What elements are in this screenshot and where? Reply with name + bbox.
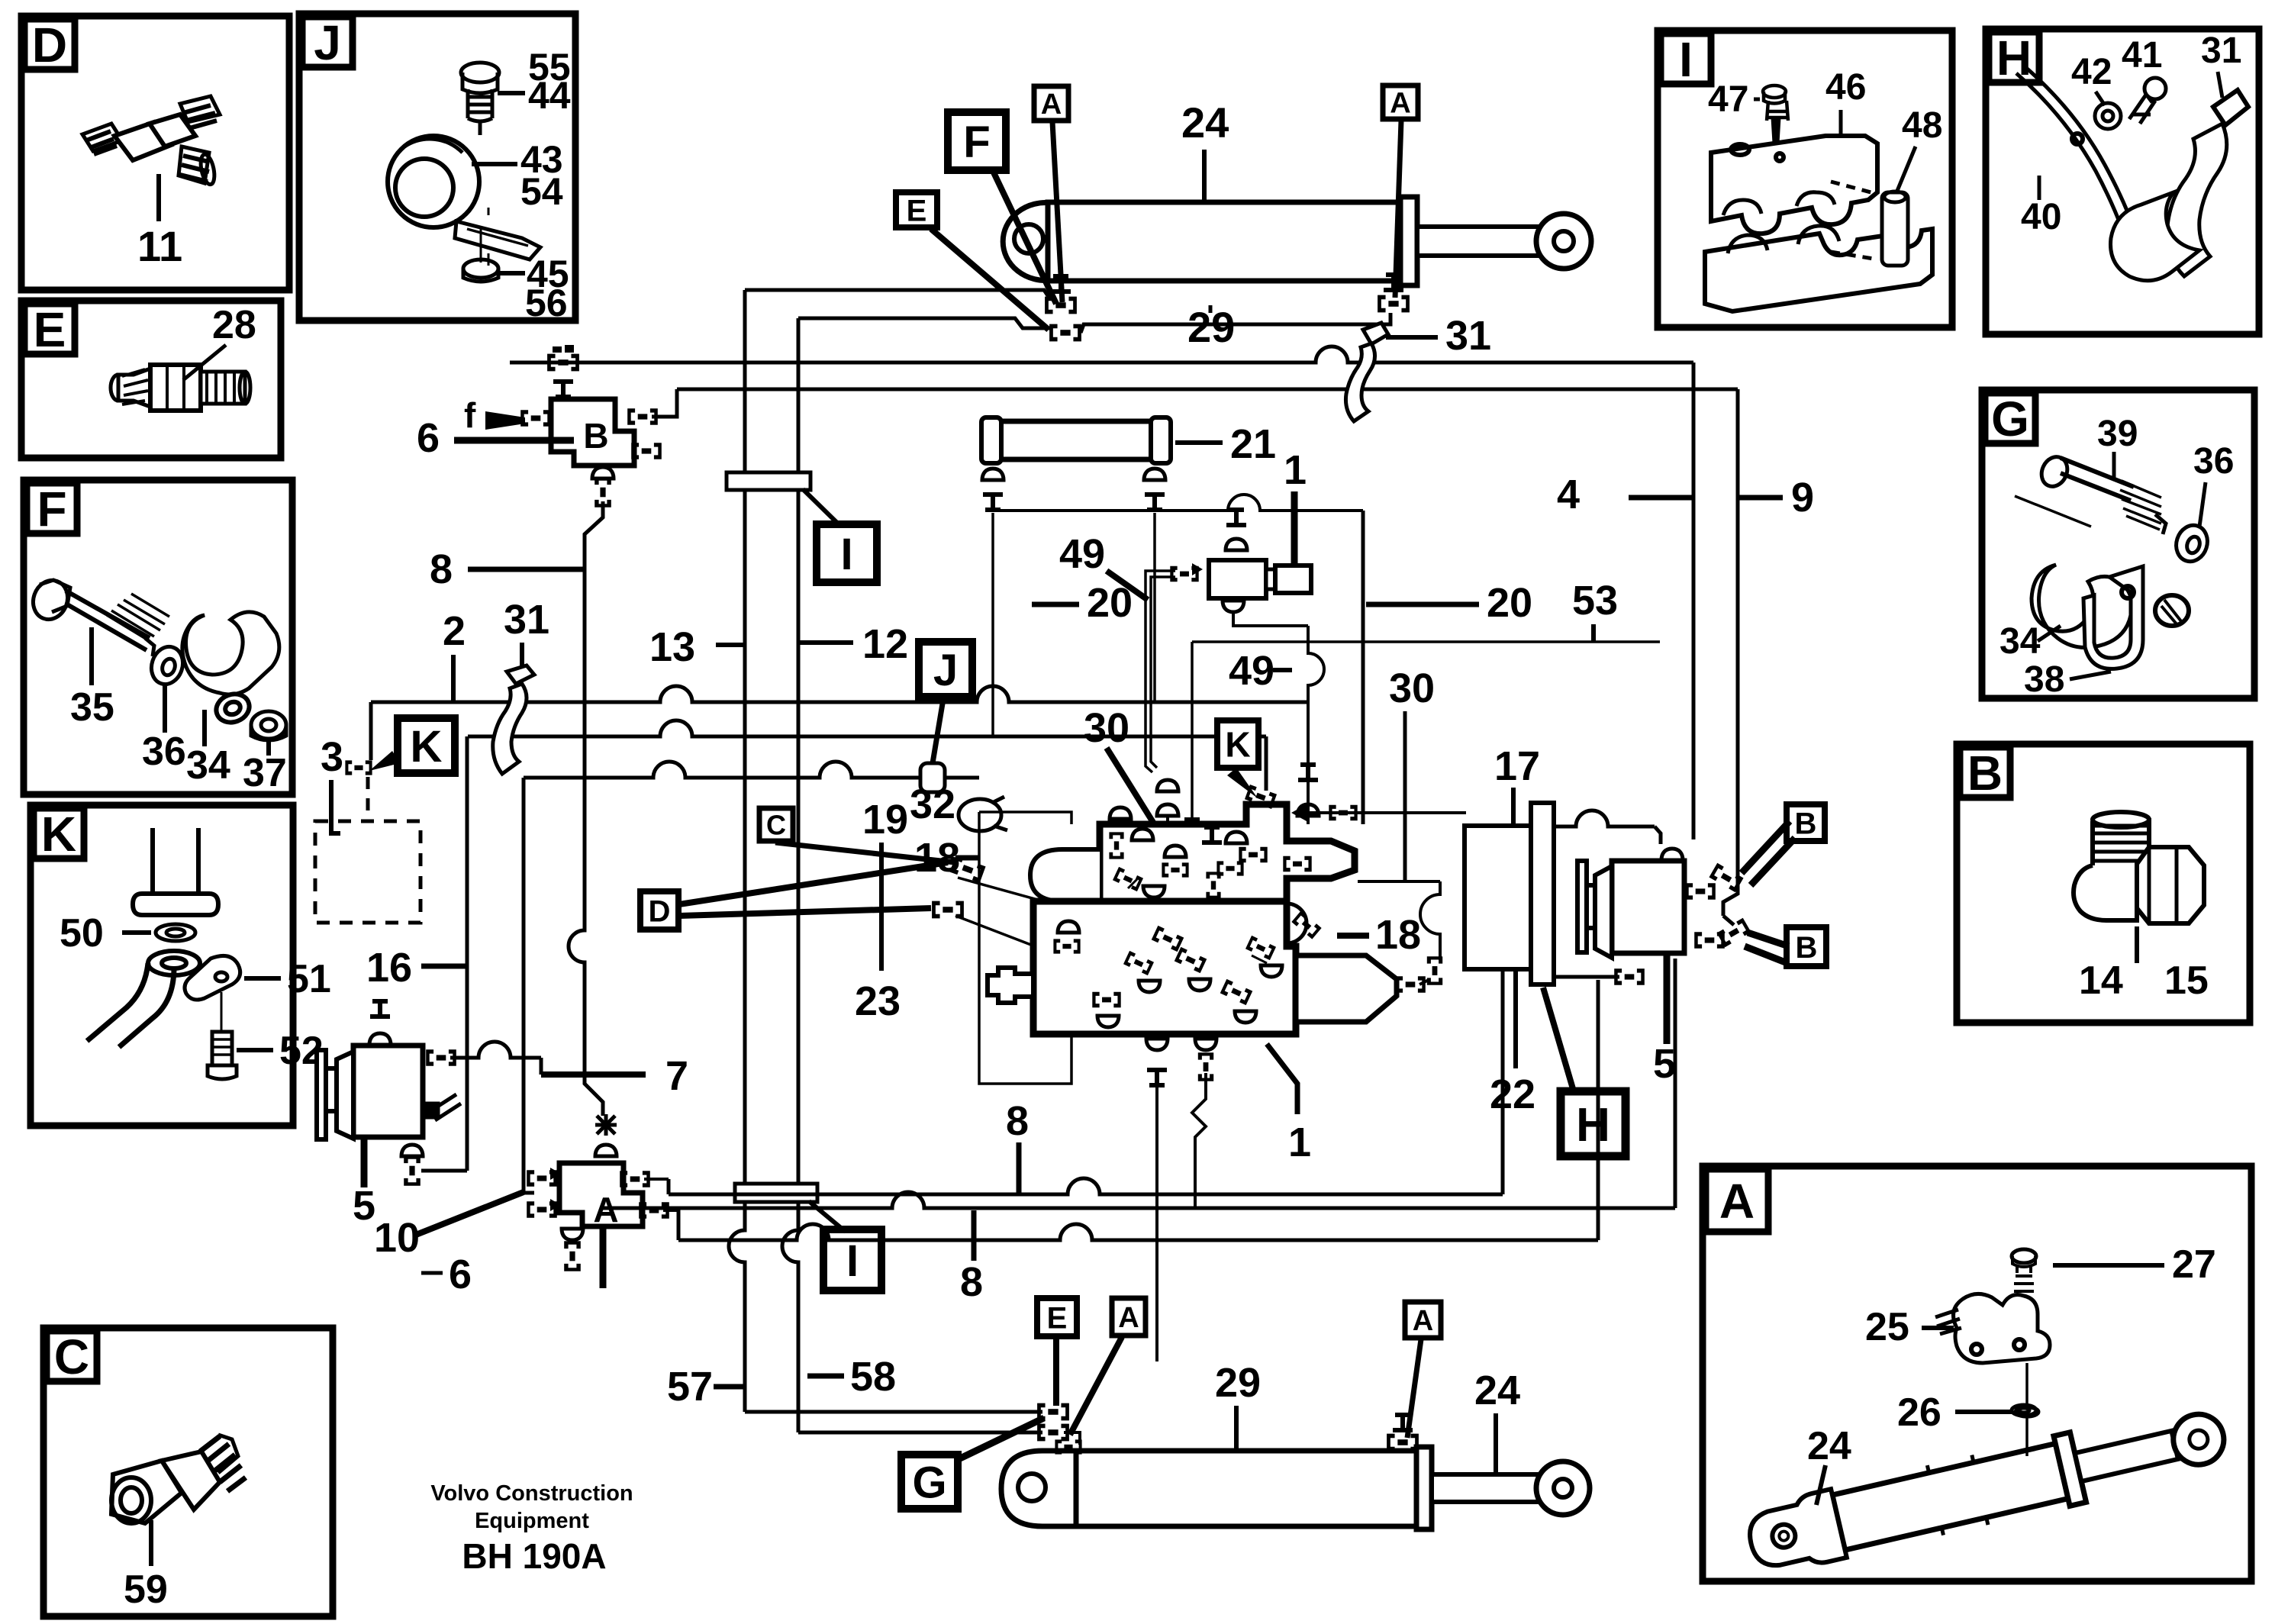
wire A bottom down <box>600 1226 607 1288</box>
label 35 leader <box>89 627 94 685</box>
hydraulic cylinder top barrel <box>1048 202 1400 281</box>
B tag lower leader <box>1748 933 1789 946</box>
extra valve interior fittings <box>1113 867 1143 891</box>
label 28 leader <box>183 345 226 380</box>
wire y965 drop to valve K fitting at x1659 <box>1265 736 1268 791</box>
svg-text:32: 32 <box>910 781 955 827</box>
wire vertical x1562 from 53 line down to valve <box>1191 642 1194 838</box>
wire B bottom vertical x766 <box>569 501 603 1116</box>
tag F top <box>948 112 1006 170</box>
label 42 leader <box>2096 92 2105 105</box>
svg-text:49: 49 <box>1229 648 1274 694</box>
tag F leader <box>994 172 1056 304</box>
callout box E frame <box>21 301 281 458</box>
svg-text:B: B <box>1795 807 1817 840</box>
top cylinder rod <box>1417 227 1539 256</box>
callout box G frame <box>1982 390 2254 698</box>
svg-text:14: 14 <box>2079 959 2123 1003</box>
fitting f inlet <box>520 410 551 427</box>
callout box H frame <box>1986 29 2259 334</box>
label 29 leader top <box>1209 305 1213 313</box>
tag A bottom-right leader <box>1407 1339 1421 1438</box>
svg-text:5: 5 <box>1653 1041 1676 1087</box>
pilot drop fittings into valve <box>1298 762 1318 782</box>
part 38 u-bolt in box G <box>2083 566 2189 669</box>
svg-text:C: C <box>766 809 786 840</box>
valve bottom fittings <box>1146 1039 1168 1050</box>
bottom cylinder E fitting <box>1037 1403 1069 1421</box>
svg-text:B: B <box>1796 931 1818 965</box>
I tag bottom <box>823 1229 881 1290</box>
callout box C letter tab <box>47 1331 97 1381</box>
clamp 31 hook drawing <box>493 665 534 774</box>
svg-text:Volvo Construction: Volvo Construction <box>430 1481 633 1506</box>
C tag <box>759 808 793 841</box>
K valve fitting <box>1245 785 1277 809</box>
clamp 31 on lines <box>1345 323 1388 421</box>
label 57 leader <box>714 1384 745 1390</box>
part 44 bolt in box J <box>461 63 499 135</box>
wire y1625 up at right <box>1597 980 1600 1240</box>
lower block right bullet spool <box>1296 955 1397 1022</box>
K tag left pointer <box>369 751 400 771</box>
valve top-right port arrow and wire to filter <box>1291 804 1307 821</box>
fitting under top cylinder 2 <box>1049 324 1081 342</box>
B tag right lower <box>1787 927 1826 966</box>
wire y1565 <box>669 1178 1503 1194</box>
hose from A-right fitting down-left <box>1081 313 1390 333</box>
svg-text:31: 31 <box>1445 313 1491 359</box>
callout box F letter tab <box>27 483 77 533</box>
wire from bullet tip to corner fitting <box>1419 980 1429 984</box>
solenoid left fitting <box>1170 566 1198 582</box>
bottom cylinder right A fitting <box>1387 1434 1419 1452</box>
hose from fitting2 to vertical x1046 <box>798 318 1050 328</box>
svg-text:18: 18 <box>1375 912 1421 958</box>
svg-text:59: 59 <box>124 1568 168 1612</box>
svg-text:E: E <box>907 194 927 227</box>
bottom cylinder rod collar <box>1416 1447 1432 1529</box>
svg-text:D: D <box>649 894 671 928</box>
callout box D letter tab <box>24 19 75 69</box>
bottom cylinder A fitting <box>1037 1424 1069 1442</box>
fittings above solenoid <box>1226 507 1246 527</box>
tag E bottom leader <box>1053 1338 1059 1406</box>
label 47 leader <box>1754 98 1760 101</box>
svg-text:H: H <box>1576 1099 1610 1152</box>
K tag left <box>398 718 455 773</box>
svg-text:11: 11 <box>137 222 182 270</box>
part 24 cylinder in box A <box>1743 1399 2231 1577</box>
label 17 leader <box>1511 788 1516 826</box>
label 24 leader in box A <box>1816 1465 1825 1505</box>
wire x2277 into lower fitting <box>1723 916 1734 925</box>
svg-text:39: 39 <box>2097 414 2138 454</box>
part 36 washer in box F <box>147 643 187 688</box>
A manifold block <box>559 1163 643 1226</box>
label 5 right leader thick <box>1664 955 1671 1044</box>
H tag leader <box>1543 988 1574 1091</box>
30 right vertical <box>1403 711 1407 881</box>
hose stem in box K <box>133 828 218 915</box>
svg-text:4: 4 <box>1557 472 1580 517</box>
label 39 leader <box>2112 452 2116 481</box>
hydraulic cylinder top clevis end <box>1003 203 1052 281</box>
svg-text:44: 44 <box>528 74 571 117</box>
svg-text:26: 26 <box>1897 1390 1941 1435</box>
fitting at K left <box>345 760 372 775</box>
wire corner from 2 down-left <box>369 702 373 760</box>
svg-text:31: 31 <box>504 597 549 643</box>
svg-text:A: A <box>1118 1302 1139 1334</box>
I tag top leader <box>803 489 841 527</box>
callout box A letter tab <box>1706 1169 1768 1232</box>
part 28 nipple in box E <box>111 365 250 411</box>
wire solenoid left to x1504 vertical (double) <box>1146 571 1175 772</box>
part 26 washer above cylinder in box A <box>2016 1363 2038 1456</box>
svg-text:27: 27 <box>2172 1242 2216 1287</box>
label 43 leader <box>472 162 517 166</box>
label 51 leader <box>244 976 281 981</box>
svg-text:G: G <box>912 1458 946 1507</box>
label 8 bottom-center leader <box>1017 1142 1022 1194</box>
svg-text:I: I <box>1679 32 1693 87</box>
corner fitting right of bullet <box>1427 956 1442 984</box>
tag E leader <box>931 229 1049 330</box>
label 14 leader <box>2135 926 2139 963</box>
label 4 leader <box>1629 495 1693 501</box>
fitting B right out <box>627 408 658 425</box>
wire y669 from resonator drop to vertical x1786 <box>993 495 1363 511</box>
part 39 bolt in box G <box>2015 453 2166 534</box>
control valve lower block outline <box>1033 901 1296 1034</box>
label 46 leader <box>1839 110 1843 134</box>
label 3 leader <box>331 780 340 833</box>
wire B right out to y510 <box>652 389 677 417</box>
svg-text:B: B <box>583 416 608 456</box>
svg-text:A: A <box>1390 88 1410 120</box>
filter plate 22 <box>1531 803 1554 984</box>
center vertical x976 <box>729 290 745 1412</box>
label 11 leader <box>156 174 161 221</box>
part 52 bolt in box K <box>208 992 237 1079</box>
bottom cylinder top fitting into barrel <box>1055 1439 1081 1454</box>
wire from valve bottom fitting 1 down <box>1155 1076 1158 1361</box>
part 34 clamp in box F <box>182 612 279 727</box>
top cylinder rod eye <box>1536 214 1591 269</box>
svg-text:16: 16 <box>366 945 412 991</box>
svg-text:34: 34 <box>1999 621 2041 662</box>
dashed wire below K fitting <box>366 777 370 821</box>
tag E top <box>896 192 937 227</box>
callout box B letter tab <box>1960 747 2010 797</box>
clevis hole top cylinder <box>1014 224 1043 253</box>
solenoid bottom fitting + wire down x1714 <box>1223 601 1244 612</box>
part 46 upper clamp block in box I <box>1711 136 1877 234</box>
label 31 leader <box>1386 335 1438 340</box>
J tag leader <box>933 699 943 763</box>
svg-text:1: 1 <box>1284 447 1307 493</box>
svg-text:58: 58 <box>850 1354 896 1400</box>
label 22 leader <box>1513 971 1518 1068</box>
svg-text:37: 37 <box>243 751 287 795</box>
callout box K letter tab <box>34 808 84 859</box>
center vertical x976 bottom to E fitting <box>745 1410 1042 1414</box>
label 50 leader <box>122 930 151 935</box>
svg-text:10: 10 <box>374 1215 420 1261</box>
label 30 center leader thick <box>1107 748 1175 858</box>
tag G bottom <box>901 1455 958 1509</box>
resonator left cap <box>981 417 1001 463</box>
label 34 leader <box>2038 626 2061 641</box>
vertical x612 (16 wire) <box>466 736 469 1171</box>
part 35 bolt in box F <box>27 575 169 656</box>
svg-text:49: 49 <box>1059 531 1105 577</box>
svg-text:35: 35 <box>70 685 114 730</box>
K tag valve <box>1217 720 1258 768</box>
label 12 leader <box>800 640 853 645</box>
svg-text:B: B <box>1967 746 2003 801</box>
svg-text:25: 25 <box>1865 1305 1909 1349</box>
wire y1019 long horizontal <box>524 762 979 778</box>
part 50 o-ring in box K <box>156 924 195 941</box>
svg-text:J: J <box>933 646 958 695</box>
C fitting cluster <box>949 855 985 883</box>
svg-text:24: 24 <box>1474 1368 1520 1413</box>
part 26 washer in box A <box>2012 1405 2036 1416</box>
label 13 leader <box>716 643 745 647</box>
wire y475 long horizontal <box>510 346 1693 362</box>
part 51 clamp half in box K <box>185 955 240 1000</box>
tag A bottom-left leader <box>1070 1337 1122 1435</box>
wire pump bottom to x612 <box>421 1169 467 1173</box>
part 46 lower clamp block in box I <box>1705 226 1932 311</box>
callout box D frame <box>21 16 289 290</box>
18 loop rectangle <box>979 812 1071 1084</box>
label 8 bottom leader <box>972 1210 977 1261</box>
bullet tip fitting <box>1395 976 1426 993</box>
center vertical x1046 bottom to A fitting <box>798 1431 1042 1435</box>
label 52 leader <box>237 1048 273 1052</box>
left 20 vertical bottom fittings <box>1157 780 1178 791</box>
svg-text:K: K <box>1225 725 1250 765</box>
label 25 leader <box>1922 1326 1954 1330</box>
label 38 leader <box>2070 672 2111 679</box>
svg-text:BH 190A: BH 190A <box>462 1536 606 1576</box>
label 36 leader <box>163 685 167 733</box>
svg-text:30: 30 <box>1389 665 1435 711</box>
fitting B lower-right out <box>631 443 662 459</box>
svg-text:36: 36 <box>142 730 186 774</box>
label 7 thick line <box>541 1071 646 1078</box>
svg-text:41: 41 <box>2122 35 2162 76</box>
K tag valve pointer <box>1227 768 1258 798</box>
tag A top-left leader <box>1052 122 1062 302</box>
I tag bottom leader <box>809 1201 846 1232</box>
svg-text:E: E <box>34 302 66 357</box>
label 26 leader <box>1955 1410 2012 1414</box>
part 40 leaf in box H <box>2016 67 2143 261</box>
part 27 valve in box A <box>2012 1249 2036 1291</box>
label 10 leader thick <box>416 1192 524 1235</box>
wire into valve top from elbow <box>1166 815 1169 824</box>
label 34 leader <box>202 710 207 746</box>
B tag right upper <box>1787 804 1825 841</box>
label 58 leader <box>807 1374 844 1379</box>
upper block nose (left rounded) <box>1030 849 1100 901</box>
wire pump right to 7 <box>450 1042 541 1058</box>
svg-text:48: 48 <box>1902 105 1942 146</box>
right motor right fittings lower <box>1694 932 1725 949</box>
svg-text:5: 5 <box>353 1183 375 1229</box>
callout box H letter tab <box>1989 32 2039 82</box>
wire from resonator left down to y965 <box>991 513 994 736</box>
callout box A frame <box>1703 1166 2251 1581</box>
part 42 washer in box H <box>2095 103 2121 129</box>
wire y841 (53) <box>1192 640 1660 643</box>
label 20 right leader <box>1366 602 1479 607</box>
svg-text:21: 21 <box>1230 421 1276 467</box>
right motor body <box>1612 861 1684 953</box>
A manifold bottom fittings <box>562 1229 583 1240</box>
svg-text:C: C <box>54 1329 89 1384</box>
lower block left pump stub <box>988 968 1033 1003</box>
tag A top-right <box>1383 85 1418 119</box>
label 36 leader <box>2199 482 2206 527</box>
svg-text:38: 38 <box>2024 659 2064 700</box>
svg-text:G: G <box>1991 391 2029 446</box>
label 31 leader <box>2218 72 2222 98</box>
svg-text:A: A <box>1719 1174 1755 1229</box>
svg-text:24: 24 <box>1181 98 1229 147</box>
svg-text:7: 7 <box>665 1053 688 1099</box>
wire y475 right vertical x2219 <box>1692 362 1696 839</box>
wire spool level y1155 to x1887 vertical <box>1358 880 1440 883</box>
D fitting cluster <box>932 901 964 919</box>
svg-text:34: 34 <box>186 743 230 788</box>
resonator right drop fittings <box>1144 469 1165 480</box>
svg-text:f: f <box>464 395 476 435</box>
svg-text:18: 18 <box>914 835 960 881</box>
callout box G letter tab <box>1985 393 2035 443</box>
svg-text:19: 19 <box>862 797 908 843</box>
svg-text:E: E <box>1047 1301 1068 1335</box>
I tag top <box>817 524 877 582</box>
svg-text:1: 1 <box>1288 1120 1311 1165</box>
wire y510 right vertical x2277 <box>1723 389 1738 916</box>
svg-text:A: A <box>1413 1305 1433 1337</box>
svg-text:42: 42 <box>2071 52 2112 92</box>
wire y1877 extension to right fitting <box>1064 1432 1080 1445</box>
A manifold left fittings <box>527 1170 557 1187</box>
svg-text:28: 28 <box>212 303 256 347</box>
star valve above A manifold <box>595 1114 617 1136</box>
svg-text:40: 40 <box>2021 197 2061 237</box>
32 wire loop ellipse <box>959 799 1001 831</box>
label 59 leader <box>149 1520 153 1566</box>
svg-text:F: F <box>963 118 990 167</box>
wire y965 long horizontal <box>468 720 1266 736</box>
label 2 leader <box>451 655 456 702</box>
wire y1565 up at right into tank <box>1501 971 1505 1194</box>
svg-text:17: 17 <box>1494 743 1540 789</box>
label 49 upper-left leader thick <box>1107 571 1148 600</box>
label 49 leader <box>1273 668 1292 672</box>
svg-text:D: D <box>32 18 67 72</box>
part 11 T-fitting in box D <box>82 96 220 185</box>
svg-text:47: 47 <box>1708 79 1748 120</box>
wire tank top to motor <box>1554 810 1655 826</box>
tank box 17 <box>1465 826 1531 969</box>
long diagonal wire 23 <box>955 916 1213 1015</box>
label 31 mid leader <box>520 643 524 665</box>
svg-text:29: 29 <box>1215 1360 1261 1406</box>
svg-text:57: 57 <box>667 1364 713 1410</box>
svg-text:22: 22 <box>1490 1071 1535 1117</box>
svg-text:8: 8 <box>430 546 453 592</box>
svg-text:12: 12 <box>862 621 908 667</box>
motor left lower fitting + wire <box>1614 968 1645 985</box>
svg-text:13: 13 <box>649 624 695 670</box>
label 18 left leader <box>955 855 979 861</box>
tag A bottom-left <box>1112 1298 1146 1336</box>
svg-text:3: 3 <box>321 734 343 780</box>
label 24 leader top <box>1202 150 1207 201</box>
callout box I letter tab <box>1661 34 1711 84</box>
label 37 leader <box>266 742 271 756</box>
svg-text:20: 20 <box>1487 580 1532 626</box>
label 45 leader <box>498 271 525 275</box>
label 18 right leader <box>1337 933 1369 939</box>
left pump top fittings <box>370 999 390 1019</box>
I sleeve clamp bottom <box>735 1184 817 1202</box>
part 43/54 clamp ring in box J <box>388 136 540 266</box>
svg-text:I: I <box>846 1236 859 1286</box>
B tag upper leader <box>1742 821 1790 873</box>
callout box F frame <box>24 480 292 794</box>
wire y1583 up at right <box>1674 959 1677 1208</box>
pump bottom fittings <box>401 1145 423 1156</box>
label 1 top leader <box>1291 491 1298 565</box>
svg-text:24: 24 <box>1807 1424 1851 1468</box>
svg-text:F: F <box>37 482 66 536</box>
D tag leader 1 <box>679 862 948 904</box>
label 8 left leader <box>468 567 585 572</box>
label 53 tick <box>1591 624 1596 642</box>
I sleeve clamp top <box>727 472 810 490</box>
callout box C frame <box>44 1328 333 1616</box>
svg-text:50: 50 <box>60 911 104 955</box>
part 41 bolt in box H <box>2129 78 2166 124</box>
svg-text:56: 56 <box>525 282 568 324</box>
callout box E letter tab <box>24 304 75 354</box>
svg-text:31: 31 <box>2201 31 2241 71</box>
bottom cylinder rod <box>1432 1474 1539 1502</box>
label 20 left leader <box>1032 602 1079 607</box>
tag A bottom-right <box>1405 1302 1441 1338</box>
svg-text:53: 53 <box>1572 578 1618 623</box>
tag E bottom <box>1037 1298 1077 1336</box>
control valve upper block outline <box>1100 804 1355 901</box>
label 24 bottom leader <box>1494 1413 1498 1473</box>
part 47 screw in box I <box>1763 85 1788 159</box>
svg-text:6: 6 <box>417 415 440 461</box>
label 6 leader thick <box>454 437 574 444</box>
left pump right fitting <box>426 1049 456 1066</box>
svg-text:8: 8 <box>1006 1098 1029 1144</box>
svg-text:30: 30 <box>1084 705 1129 751</box>
left pump body <box>353 1046 423 1137</box>
